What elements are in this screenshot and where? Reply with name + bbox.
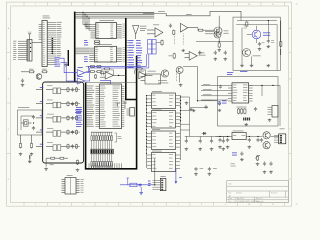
IC U3 latch <box>89 44 125 62</box>
resistor R14 <box>280 41 282 48</box>
svg-text:5: 5 <box>130 4 131 6</box>
resistor network array <box>91 132 113 149</box>
svg-text:5: 5 <box>130 204 131 206</box>
capacitor C7 with ground <box>224 51 228 61</box>
component near box bottom <box>76 160 80 172</box>
transistor Q1 <box>36 74 42 80</box>
svg-text:9: 9 <box>225 204 226 206</box>
svg-text:Title: Title <box>228 182 232 185</box>
svg-text:3: 3 <box>83 4 84 6</box>
connector J2 header <box>62 175 84 194</box>
svg-text:Size: Size <box>228 192 231 194</box>
reset component box <box>123 101 134 117</box>
crystal Y1 <box>21 115 35 130</box>
transistor Q8 <box>263 132 270 139</box>
capacitor C4 pair <box>169 24 175 36</box>
capacitor C15 C16 <box>256 138 263 142</box>
MCU blue left net labels <box>76 107 82 127</box>
ground under R15 <box>244 123 248 126</box>
blue labels inside opto box <box>75 110 81 113</box>
capacitor C14 <box>248 138 252 148</box>
svg-text:Drawn By:: Drawn By: <box>256 200 264 203</box>
VCC power symbol <box>28 32 32 40</box>
sheet outer border <box>7 2 292 206</box>
svg-text:2: 2 <box>59 204 60 206</box>
svg-text:Date:: Date: <box>228 197 233 200</box>
svg-text:17-Apr-2002: 17-Apr-2002 <box>235 197 244 200</box>
capacitor C20 <box>194 167 203 175</box>
opto input stubs <box>36 90 43 147</box>
data bus horizontal lines <box>75 12 155 18</box>
capacitor C12 <box>218 138 222 148</box>
thermistor dotted <box>175 71 177 81</box>
svg-text:12: 12 <box>295 4 297 6</box>
bus stub near U1 <box>67 50 69 66</box>
svg-text:6: 6 <box>154 204 155 206</box>
wire connector J1 to U1 <box>32 42 42 44</box>
buffer triangle U4 <box>133 26 147 39</box>
svg-text:10: 10 <box>248 4 250 6</box>
svg-text:1: 1 <box>35 4 36 6</box>
svg-text:11: 11 <box>272 4 274 6</box>
op-amp U5B <box>135 68 153 79</box>
svg-text:9: 9 <box>225 4 226 6</box>
driver output wires right <box>181 97 190 136</box>
capacitor C5 <box>198 51 201 55</box>
resistor R10 <box>157 40 164 46</box>
svg-text:12: 12 <box>295 204 297 206</box>
capacitor C2 <box>19 143 23 156</box>
blue horizontal bus wires <box>89 66 149 68</box>
transistor Q9 <box>263 142 270 149</box>
blue wires into gates <box>59 58 78 81</box>
svg-text:4: 4 <box>106 4 107 6</box>
title block <box>227 181 289 203</box>
blue label U10 MAX232 <box>227 72 233 75</box>
cap C22 <box>254 107 257 111</box>
transistor Q7 left <box>205 27 222 35</box>
wire rows below opto box <box>46 157 68 166</box>
resistor R11 below Q2 <box>217 42 221 51</box>
resistor R5 R6 pair <box>86 65 105 67</box>
wires crystal to MCU box <box>21 135 32 143</box>
MCU U6 box <box>100 82 122 128</box>
ground below U1 <box>64 64 68 67</box>
component value labels in R1 <box>244 26 275 44</box>
ground under Q4 <box>179 84 183 87</box>
blue wires gates to bus <box>85 67 90 81</box>
connector J3 <box>148 176 166 191</box>
capacitor C1 <box>21 79 25 87</box>
blue speaker circuit <box>120 178 155 194</box>
svg-text:3: 3 <box>83 204 84 206</box>
blue relay box K1 <box>148 40 152 55</box>
blue net label column A <box>128 40 134 68</box>
IC U10 <box>228 83 253 103</box>
connector J1 pins <box>13 40 32 62</box>
diode D2 <box>202 132 207 135</box>
wires bus to U2 <box>82 12 90 30</box>
MCU bottom pin hatch <box>89 163 121 168</box>
output stage group box <box>233 17 280 70</box>
output stage inner box <box>236 25 277 71</box>
blue bus risers to relays <box>147 54 149 68</box>
serial wires left <box>201 84 228 100</box>
data bus vertical trunk <box>74 12 76 83</box>
capacitor C3 <box>30 143 34 156</box>
resistor R5b R6b pair <box>86 71 104 76</box>
resistor R13 <box>246 21 248 27</box>
blue relay box K2 <box>152 40 156 55</box>
wires power bottom <box>265 158 272 162</box>
border zone ticks bottom <box>24 202 285 206</box>
transistor Q5 blue <box>247 26 270 43</box>
svg-text:Revision: Revision <box>271 193 278 195</box>
svg-text:7: 7 <box>177 204 178 206</box>
transistor Q3 <box>158 70 169 83</box>
ground under U7B <box>181 49 185 52</box>
op-amp U5A <box>100 68 126 79</box>
transistor Q2 <box>213 16 229 42</box>
address bus vertical <box>126 18 137 100</box>
blue column stubs <box>127 40 128 67</box>
regulator U11 <box>232 131 246 140</box>
svg-text:11: 11 <box>272 204 274 206</box>
collector wire net <box>183 67 198 102</box>
ground near reset <box>116 103 121 107</box>
serial wires right <box>249 85 280 126</box>
grounds in output box <box>240 64 270 67</box>
driver IC U11 <box>147 129 180 149</box>
resistor array R15 <box>237 107 247 114</box>
driver output collector <box>180 95 181 160</box>
driver IC U9 <box>147 91 180 108</box>
resistor R8 <box>42 69 48 73</box>
blue zener D1 <box>222 101 227 104</box>
capacitor C9 <box>258 42 262 50</box>
MCU right pin stubs and labels <box>113 86 125 127</box>
driver IC U10 <box>147 109 180 128</box>
blue branch wire down <box>100 80 110 84</box>
resistor R3 R4 pair <box>94 40 100 44</box>
connector J4 <box>268 106 279 122</box>
U1 blue net labels <box>55 57 61 66</box>
svg-text:6: 6 <box>154 4 155 6</box>
capacitor C17 <box>240 152 244 161</box>
resistor R12 <box>169 53 176 59</box>
supply rail y136 <box>185 135 230 137</box>
power connector P1 <box>274 129 286 144</box>
svg-text:Number: Number <box>236 192 242 195</box>
svg-text:10: 10 <box>248 204 250 206</box>
label bottom right <box>231 164 236 167</box>
power rail <box>216 136 279 137</box>
svg-text:4: 4 <box>106 204 107 206</box>
capacitor C21 <box>208 167 217 175</box>
opto channel rows <box>46 85 80 150</box>
op-amp U7B <box>180 23 213 32</box>
driver input bus vertical <box>146 95 147 168</box>
blue label below output box <box>240 70 247 73</box>
dashed feedback <box>182 33 184 44</box>
driver IC U12 <box>147 151 180 172</box>
svg-text:7: 7 <box>177 4 178 6</box>
transistor Q6 <box>243 49 261 57</box>
ground pair mid <box>185 102 193 111</box>
lower resistor row <box>91 154 113 169</box>
capacitor C18 C19 bottom right <box>263 162 273 174</box>
wire down from driver <box>154 158 155 185</box>
blue buffer gate 1 <box>77 67 85 75</box>
svg-text:File:: File: <box>228 201 232 203</box>
ground below opto <box>44 168 48 171</box>
op-amp U7A <box>147 25 163 38</box>
opto blue input labels <box>40 87 44 145</box>
border zone ticks top <box>24 2 285 6</box>
opto-isolator group box <box>43 82 84 163</box>
capacitor C8 with ground <box>218 102 222 112</box>
VCC label mid <box>186 13 192 16</box>
dark component bits <box>243 118 250 121</box>
resistor R7 <box>29 69 35 73</box>
crystal circuit box <box>18 107 43 135</box>
IC U1 buffer <box>39 16 57 67</box>
wire stub left <box>28 155 32 163</box>
blue label specks left of U2 <box>84 40 88 62</box>
MCU left pin stubs and labels <box>87 86 106 127</box>
U1 right net labels <box>57 22 62 56</box>
svg-text:Sheet of: Sheet of <box>256 197 263 200</box>
blue net label column B <box>136 40 142 68</box>
blue label power <box>232 153 237 156</box>
top rail wire <box>143 11 241 17</box>
IC U2 latch <box>85 20 125 38</box>
DIP switch SW1 <box>91 149 113 154</box>
svg-text:8: 8 <box>201 4 202 6</box>
transistor Q4 <box>176 67 183 83</box>
svg-text:A4: A4 <box>229 194 231 197</box>
svg-text:1: 1 <box>35 204 36 206</box>
blue buffer gate 2 <box>77 76 85 84</box>
array side label <box>115 133 122 142</box>
capacitor C13 <box>226 138 230 148</box>
ground rail lower mid <box>190 105 208 112</box>
wires bus to U3 <box>75 48 90 54</box>
sheet inner border <box>11 6 289 202</box>
resistor R16 small <box>94 74 96 79</box>
bus right vertical segment <box>86 56 137 169</box>
svg-text:2: 2 <box>59 4 60 6</box>
svg-text:8: 8 <box>201 204 202 206</box>
blue bit near serial <box>218 101 221 104</box>
dotted divider <box>174 35 176 45</box>
logic section top edge <box>86 82 137 84</box>
pot RP1 <box>255 155 260 165</box>
capacitor C6 with ground <box>214 51 218 61</box>
op-amp U8 <box>185 52 206 61</box>
zone labels <box>8 4 298 206</box>
capacitor C10 <box>267 39 271 48</box>
relay box K3 <box>141 71 161 84</box>
wire to serial box <box>198 100 218 102</box>
wire to opto box <box>21 71 29 73</box>
wire under Q2 <box>196 41 233 42</box>
top rail in box <box>237 17 277 21</box>
border zone ticks left-right <box>7 53 292 154</box>
capacitor C11 pair <box>219 85 222 89</box>
caps under rail <box>185 136 226 150</box>
serial group box <box>218 77 279 126</box>
wires output box <box>242 20 281 64</box>
blue signal arrow <box>175 168 182 184</box>
